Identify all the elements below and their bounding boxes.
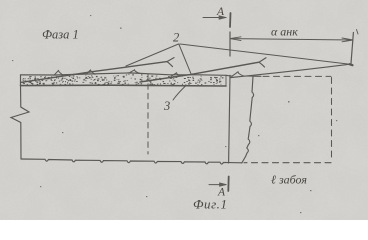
leader from 2 to anchor2 xyxy=(179,44,191,74)
tip blob xyxy=(350,64,353,65)
break tick on band top x=176 xyxy=(171,73,182,76)
section tick bottom x=228.5 xyxy=(227,177,229,192)
anchor 1 xyxy=(22,62,168,83)
face line x=229 xyxy=(229,75,230,163)
roof line right of face xyxy=(226,75,261,76)
svg-text:Фиг.1: Фиг.1 xyxy=(193,197,228,212)
dimension extension tick left x=230 xyxy=(229,32,231,56)
photocopy specks xyxy=(12,15,337,213)
dashed outline of future face (top) xyxy=(263,75,331,77)
svg-text:ℓ забоя: ℓ забоя xyxy=(271,173,307,187)
break tick on band top x=91 xyxy=(86,70,95,74)
svg-text:Фаза 1: Фаза 1 xyxy=(42,28,79,42)
anchor 2 xyxy=(140,62,259,82)
break tick on band top x=59 xyxy=(54,71,63,76)
svg-text:А: А xyxy=(216,6,225,18)
svg-text:3: 3 xyxy=(163,99,170,113)
stippled roof layer band xyxy=(21,73,227,85)
dim arrow left xyxy=(230,37,241,41)
svg-text:2: 2 xyxy=(173,31,179,45)
leader from 2 to anchor1 xyxy=(126,44,179,66)
speckles in band xyxy=(22,74,223,85)
dimension line l_ank xyxy=(230,39,353,40)
section tick top x=230 xyxy=(229,13,232,27)
long anchor to tip xyxy=(230,64,350,77)
dashed outline bottom xyxy=(244,162,331,164)
leader from 2 to long anchor tip xyxy=(180,44,350,64)
anchor 1 fishtail xyxy=(167,58,174,67)
dimension extension tick right x=353 xyxy=(351,33,353,64)
anchor 2 fishtail xyxy=(259,58,266,67)
scalloped face x=252 xyxy=(242,76,254,163)
dashed outline right vertical xyxy=(331,78,333,162)
dashed vertical x=148 xyxy=(147,74,149,154)
small tick at right end xyxy=(357,30,359,35)
svg-text:α анк: α анк xyxy=(271,25,298,39)
dim arrow right xyxy=(342,38,353,42)
section arrow A bottom xyxy=(209,184,226,186)
break tick on band top x=135 xyxy=(129,70,140,74)
section arrow A top xyxy=(203,17,226,19)
break tick on roof line x=238 xyxy=(232,72,244,76)
leader from 3 to band xyxy=(173,86,186,101)
left wall with break xyxy=(11,85,29,159)
floor line with cusps xyxy=(21,159,242,164)
